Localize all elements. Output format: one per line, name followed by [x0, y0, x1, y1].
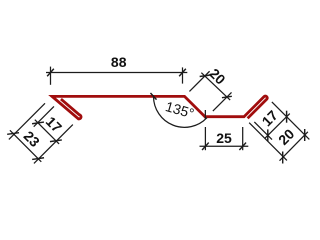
svg-text:88: 88 — [111, 54, 127, 70]
svg-text:23: 23 — [21, 128, 43, 150]
dimension 25 (bottom middle) — [204, 127, 206, 150]
dimension 88 (top width) — [50, 67, 52, 85]
svg-text:20: 20 — [206, 65, 228, 87]
dimension 20 (sloped segment) — [189, 71, 209, 91]
dimensions 17 and 23 (left hem, rotated 45deg) — [9, 103, 45, 139]
dimensions 17 and 20 (right hem, rotated 45deg) — [272, 102, 309, 139]
svg-text:17: 17 — [43, 113, 65, 135]
svg-text:25: 25 — [216, 130, 232, 146]
dimension 135 degrees: angle arc, ticks, label — [154, 96, 207, 127]
svg-text:20: 20 — [275, 126, 297, 148]
profile: red sheet-metal flashing outline with folded hems — [52, 96, 267, 119]
